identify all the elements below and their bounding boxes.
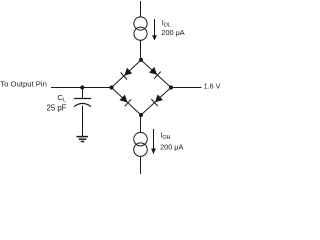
- arrowhead IOL: [152, 35, 157, 40]
- capacitor junction dot: [80, 85, 84, 89]
- wire junction to capacitor CL: [82, 88, 84, 99]
- current source IOL circle 2: [134, 27, 147, 40]
- diode D3 cathode bar (bottom-left edge): [125, 99, 132, 106]
- wire IOL to node T: [140, 40, 142, 59]
- wire node R to node B (diamond bottom-right edge): [141, 88, 171, 116]
- node B junction dot: [139, 113, 143, 117]
- wire to output pin: [51, 87, 112, 89]
- wire IOH to bottom rail: [140, 156, 142, 174]
- node L junction dot: [109, 85, 113, 89]
- diode D2 cathode bar (top-right edge): [154, 72, 161, 79]
- node R junction dot: [169, 85, 173, 89]
- diode D2 triangle (top-right edge): [149, 67, 157, 75]
- node T junction dot: [139, 58, 143, 62]
- wire node L to node B (diamond bottom-left edge): [112, 88, 142, 116]
- arrow IOH current direction: [153, 129, 155, 149]
- wire node T to node L (diamond top-left edge): [112, 60, 142, 88]
- svg-text:CL: CL: [57, 93, 66, 104]
- capacitor CL bottom curved plate: [74, 103, 91, 106]
- svg-text:IOH: IOH: [160, 130, 170, 141]
- wire node R to 1.6 V source: [171, 87, 202, 89]
- current source IOH circle 2: [134, 143, 148, 157]
- current source IOH circle 1: [134, 132, 148, 146]
- diode D4 cathode bar (bottom-right edge): [151, 99, 158, 106]
- svg-text:200 μA: 200 μA: [161, 28, 184, 37]
- arrow IOL current direction: [154, 19, 156, 36]
- capacitor CL top plate: [74, 98, 91, 100]
- svg-text:25 pF: 25 pF: [47, 104, 67, 113]
- wire top supply to current source IOL: [140, 1, 142, 17]
- svg-text:To Output Pin: To Output Pin: [0, 79, 47, 88]
- diode D1 cathode bar (top-left edge): [121, 73, 128, 80]
- wire node T to node R (diamond top-right edge): [141, 60, 171, 88]
- svg-text:1.6 V: 1.6 V: [204, 82, 221, 91]
- svg-text:200 μA: 200 μA: [160, 142, 183, 151]
- ground symbol: [77, 137, 89, 142]
- current source IOL circle 1: [134, 17, 147, 30]
- diode D3 triangle (bottom-left edge): [120, 95, 128, 103]
- diode D4 triangle (bottom-right edge): [155, 94, 163, 102]
- arrowhead IOH: [151, 149, 156, 155]
- wire node B to current source IOH: [140, 115, 142, 133]
- wire capacitor to ground: [82, 106, 84, 137]
- diode D1 triangle (top-left edge): [124, 68, 132, 76]
